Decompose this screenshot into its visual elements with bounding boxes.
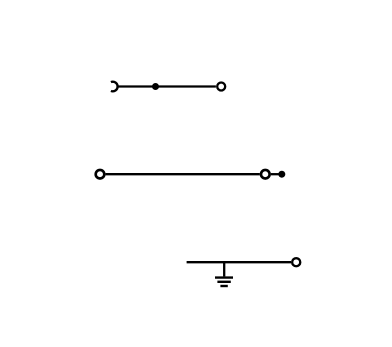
terminal circle (middle level, right) [261,170,270,179]
junction dot (top level) [152,83,159,90]
socket contact (top level, left) [111,82,118,92]
wire (middle level stub) [271,173,279,175]
wire (middle level) [106,173,260,175]
terminal circle (bottom level, right) [292,258,300,266]
terminal circle (middle level, left) [96,170,105,179]
ground [215,262,233,286]
wire (top level) [117,85,215,87]
junction dot (middle level, right) [278,171,285,178]
wire (bottom level) [187,261,291,263]
terminal circle (top level, right) [217,83,225,91]
